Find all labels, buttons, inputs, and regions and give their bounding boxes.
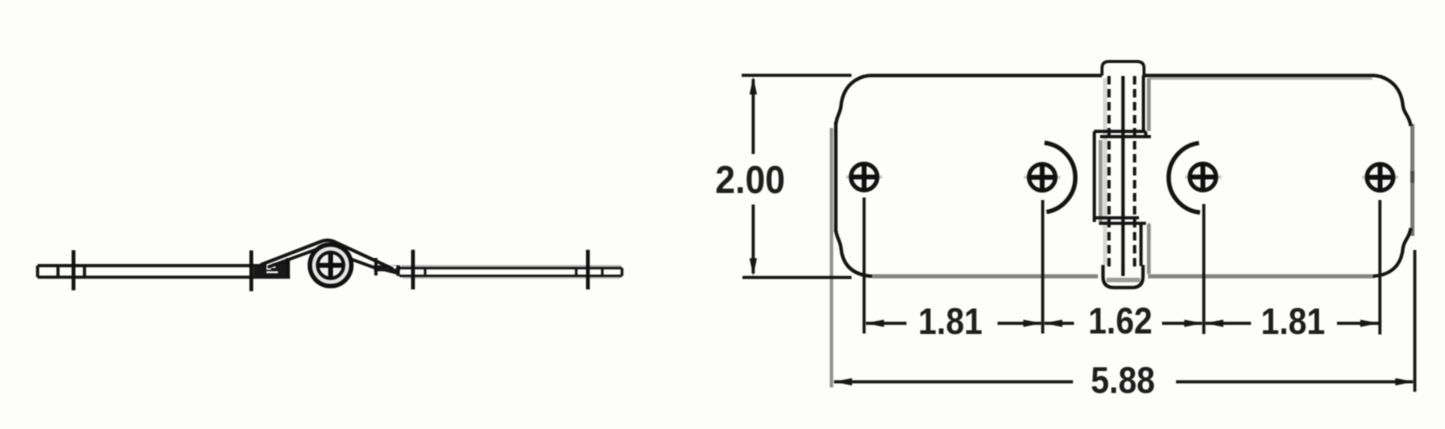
- svg-text:1.81: 1.81: [1261, 301, 1325, 342]
- svg-text:2.00: 2.00: [715, 158, 785, 202]
- svg-text:1.81: 1.81: [918, 301, 982, 342]
- svg-text:5.88: 5.88: [1091, 360, 1155, 401]
- svg-text:1.62: 1.62: [1088, 301, 1152, 342]
